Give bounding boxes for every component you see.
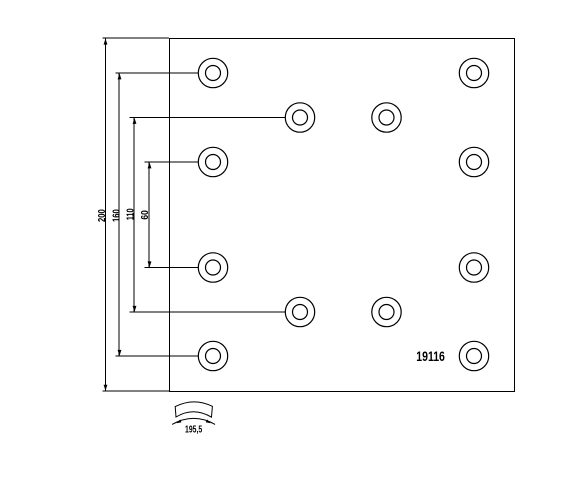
hole col3 row E [372, 297, 401, 326]
leader row B [130, 117, 286, 119]
hole col4 row D [459, 253, 488, 282]
dimension line 60 [148, 162, 152, 268]
arc-length dimension 195,5 [172, 418, 215, 424]
hole col1 row A [198, 58, 227, 87]
svg-text:160: 160 [111, 209, 122, 222]
leader row C [145, 161, 199, 163]
dimension line 160 [118, 73, 122, 356]
top extension line [102, 37, 169, 39]
hole col3 row B [372, 103, 401, 132]
svg-text:110: 110 [124, 208, 135, 220]
leader row E [130, 311, 286, 313]
bottom extension line [102, 390, 169, 392]
hole col2 row B [285, 103, 314, 132]
svg-text:60: 60 [139, 210, 151, 220]
dimension line 110 [133, 118, 137, 313]
hole col2 row E [285, 297, 314, 326]
hole col1 row F [198, 341, 227, 370]
hole col1 row C [198, 147, 227, 176]
leader row D [145, 267, 199, 269]
dimension line 200 [104, 39, 108, 391]
hole col1 row D [198, 253, 227, 282]
hole col4 row F [459, 341, 488, 370]
hole col4 row A [459, 58, 488, 87]
lining cross-section band [175, 402, 212, 417]
plate outline [170, 39, 515, 392]
svg-text:195,5: 195,5 [185, 423, 202, 435]
svg-text:200: 200 [96, 209, 107, 222]
leader row A [115, 72, 198, 74]
hole col4 row C [459, 147, 488, 176]
leader row F [115, 355, 198, 357]
svg-text:19116: 19116 [416, 349, 445, 365]
